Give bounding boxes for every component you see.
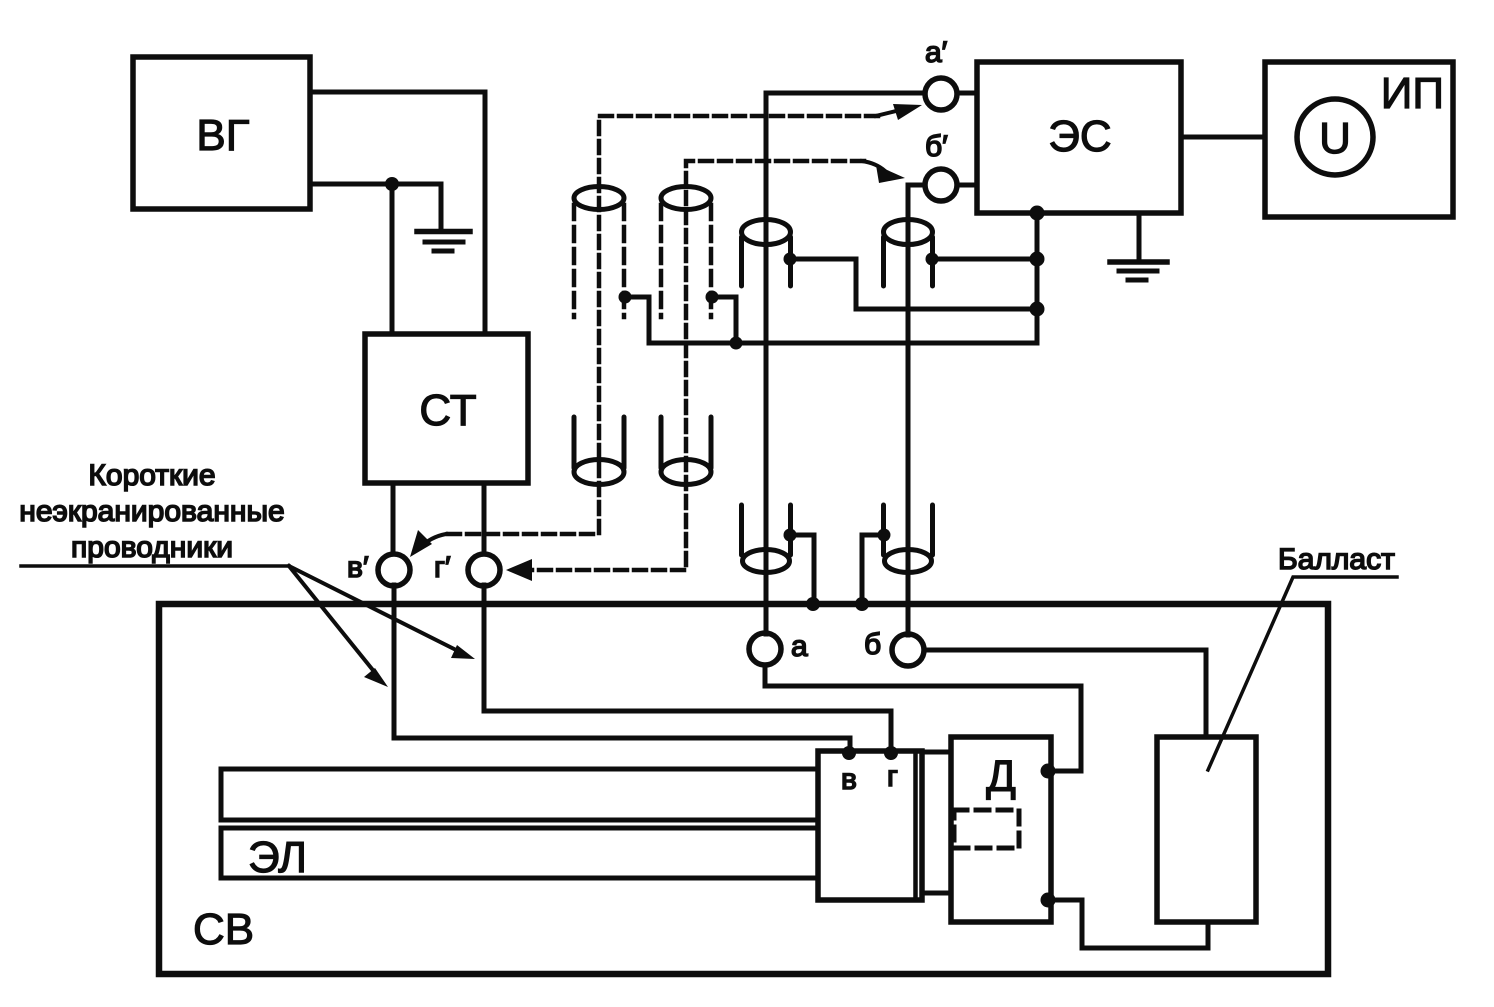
wire а' long screened conductor xyxy=(766,93,925,634)
junction dot frame (в side) xyxy=(806,597,820,611)
ground symbol GND2 under ЭС xyxy=(1110,213,1167,280)
terminal в' xyxy=(378,554,410,586)
lampholder contact box xyxy=(818,751,922,900)
terminal б xyxy=(892,634,924,666)
contact dot г xyxy=(884,746,898,760)
junction dot bus upper xyxy=(1030,252,1045,267)
junction dot frame (б side) xyxy=(855,597,869,611)
svg-text:б′: б′ xyxy=(925,130,948,163)
junction node on ВГ lower wire xyxy=(385,177,399,191)
terminal б' xyxy=(925,169,957,201)
svg-text:г′: г′ xyxy=(434,551,451,584)
screen cylinder B (solid) xyxy=(884,220,933,287)
socket link bottom xyxy=(922,891,951,896)
svg-text:а′: а′ xyxy=(925,36,948,69)
dashed screened path б'–г' xyxy=(528,161,864,570)
terminal а xyxy=(749,633,781,665)
svg-text:Короткие: Короткие xyxy=(88,459,215,492)
arrow head at а' xyxy=(876,104,922,120)
svg-text:Д: Д xyxy=(986,752,1016,801)
junction dot D1 right edge xyxy=(619,291,632,304)
ground symbol GND1 xyxy=(417,232,470,252)
annotation leader line xyxy=(21,564,289,568)
wire terminal г' down to contact г xyxy=(484,585,891,749)
leader line Балласт xyxy=(1208,577,1397,770)
svg-text:Балласт: Балласт xyxy=(1278,543,1395,576)
wire а' to ЭС xyxy=(957,91,977,96)
svg-text:а: а xyxy=(791,630,808,663)
svg-text:U: U xyxy=(1319,114,1351,163)
junction dot on ЭС bottom xyxy=(1030,206,1045,221)
block ИП xyxy=(1265,62,1453,217)
annotation: Короткие неэкранированные проводники xyxy=(19,459,284,564)
screen cup B xyxy=(884,505,933,573)
junction dot cylinder A prong xyxy=(784,253,797,266)
svg-text:в: в xyxy=(841,763,857,796)
svg-text:СТ: СТ xyxy=(419,386,476,435)
junction dot cup A prong xyxy=(784,529,797,542)
wire terminal б to ballast top xyxy=(924,650,1206,737)
screen cup A xyxy=(742,505,791,573)
luminaire box СВ xyxy=(159,604,1328,974)
wire bus to screen cylinder B xyxy=(932,257,1037,262)
screen bus from ЭС bottom xyxy=(649,213,1037,343)
wire bus to screen cylinder A xyxy=(790,259,1037,309)
dashed screened path а'–в' xyxy=(446,116,878,534)
junction dot cylinder B prong xyxy=(926,253,939,266)
arrow to unshielded wire (г) xyxy=(289,566,475,659)
lampholder inner edge xyxy=(913,753,918,898)
junction dot Д right top xyxy=(1041,764,1056,779)
wire terminal а to starter Д xyxy=(765,666,1081,771)
screen cup D1 xyxy=(574,417,624,485)
svg-text:проводники: проводники xyxy=(71,531,233,564)
wire б' to ЭС xyxy=(957,183,977,188)
svg-text:ИП: ИП xyxy=(1381,69,1444,118)
wire D1 screen to bus xyxy=(625,297,649,343)
contact dot в xyxy=(842,746,856,760)
arrow head at б' xyxy=(862,161,905,183)
junction dot Д right bottom xyxy=(1041,893,1056,908)
block ЭС xyxy=(977,62,1181,213)
starter box Д xyxy=(951,737,1051,922)
junction dot cup B prong xyxy=(878,529,891,542)
block СТ xyxy=(365,334,528,483)
block VG (high-frequency generator ВГ) xyxy=(133,57,310,209)
wire СТ bottom to terminal в' xyxy=(391,483,396,553)
lamp tube lower section (ЭЛ) xyxy=(221,828,818,878)
wire СТ bottom to terminal г' xyxy=(482,483,487,553)
arrow to unshielded wire (в) xyxy=(289,566,388,687)
socket link top xyxy=(922,750,951,755)
wire junction down to СТ top xyxy=(390,184,395,334)
dashed screen cylinder D2 xyxy=(661,187,711,318)
wire cup B screen to luminaire frame xyxy=(862,535,884,601)
terminal г' xyxy=(468,554,500,586)
screen cylinder A (solid) xyxy=(742,220,791,287)
dashed screen cylinder D1 xyxy=(574,187,624,318)
terminal а' xyxy=(925,78,957,110)
svg-text:ВГ: ВГ xyxy=(196,111,249,160)
svg-text:б: б xyxy=(864,628,881,661)
wire б' long screened conductor xyxy=(908,185,925,635)
wire starter Д to ballast bottom xyxy=(1053,900,1208,948)
wire terminal в' down to contact в xyxy=(394,585,850,749)
svg-text:ЭС: ЭС xyxy=(1048,112,1111,161)
lamp tube upper section xyxy=(221,769,818,820)
wire cup A screen to luminaire frame xyxy=(790,535,814,601)
svg-text:ЭЛ: ЭЛ xyxy=(248,833,307,882)
junction dot on bus below D2 xyxy=(730,337,743,350)
wire D2 screen to bus xyxy=(712,297,736,343)
svg-text:в′: в′ xyxy=(347,551,369,584)
junction dot bus middle xyxy=(1030,302,1045,317)
wire ЭС to ИП xyxy=(1181,135,1265,140)
svg-text:неэкранированные: неэкранированные xyxy=(19,495,284,528)
junction dot D2 right edge xyxy=(706,291,719,304)
voltmeter circle U xyxy=(1297,99,1373,175)
screen cup D2 xyxy=(661,417,711,485)
svg-text:г: г xyxy=(887,760,898,793)
dashed element inside Д xyxy=(954,810,1019,848)
svg-text:СВ: СВ xyxy=(193,905,254,954)
arrow head at в' xyxy=(410,530,446,557)
wire ВГ upper output to СТ top (right path) xyxy=(310,92,485,334)
wire ВГ lower output to ground tap xyxy=(310,184,441,231)
ballast box xyxy=(1157,737,1256,922)
arrow head at г' xyxy=(506,559,532,581)
